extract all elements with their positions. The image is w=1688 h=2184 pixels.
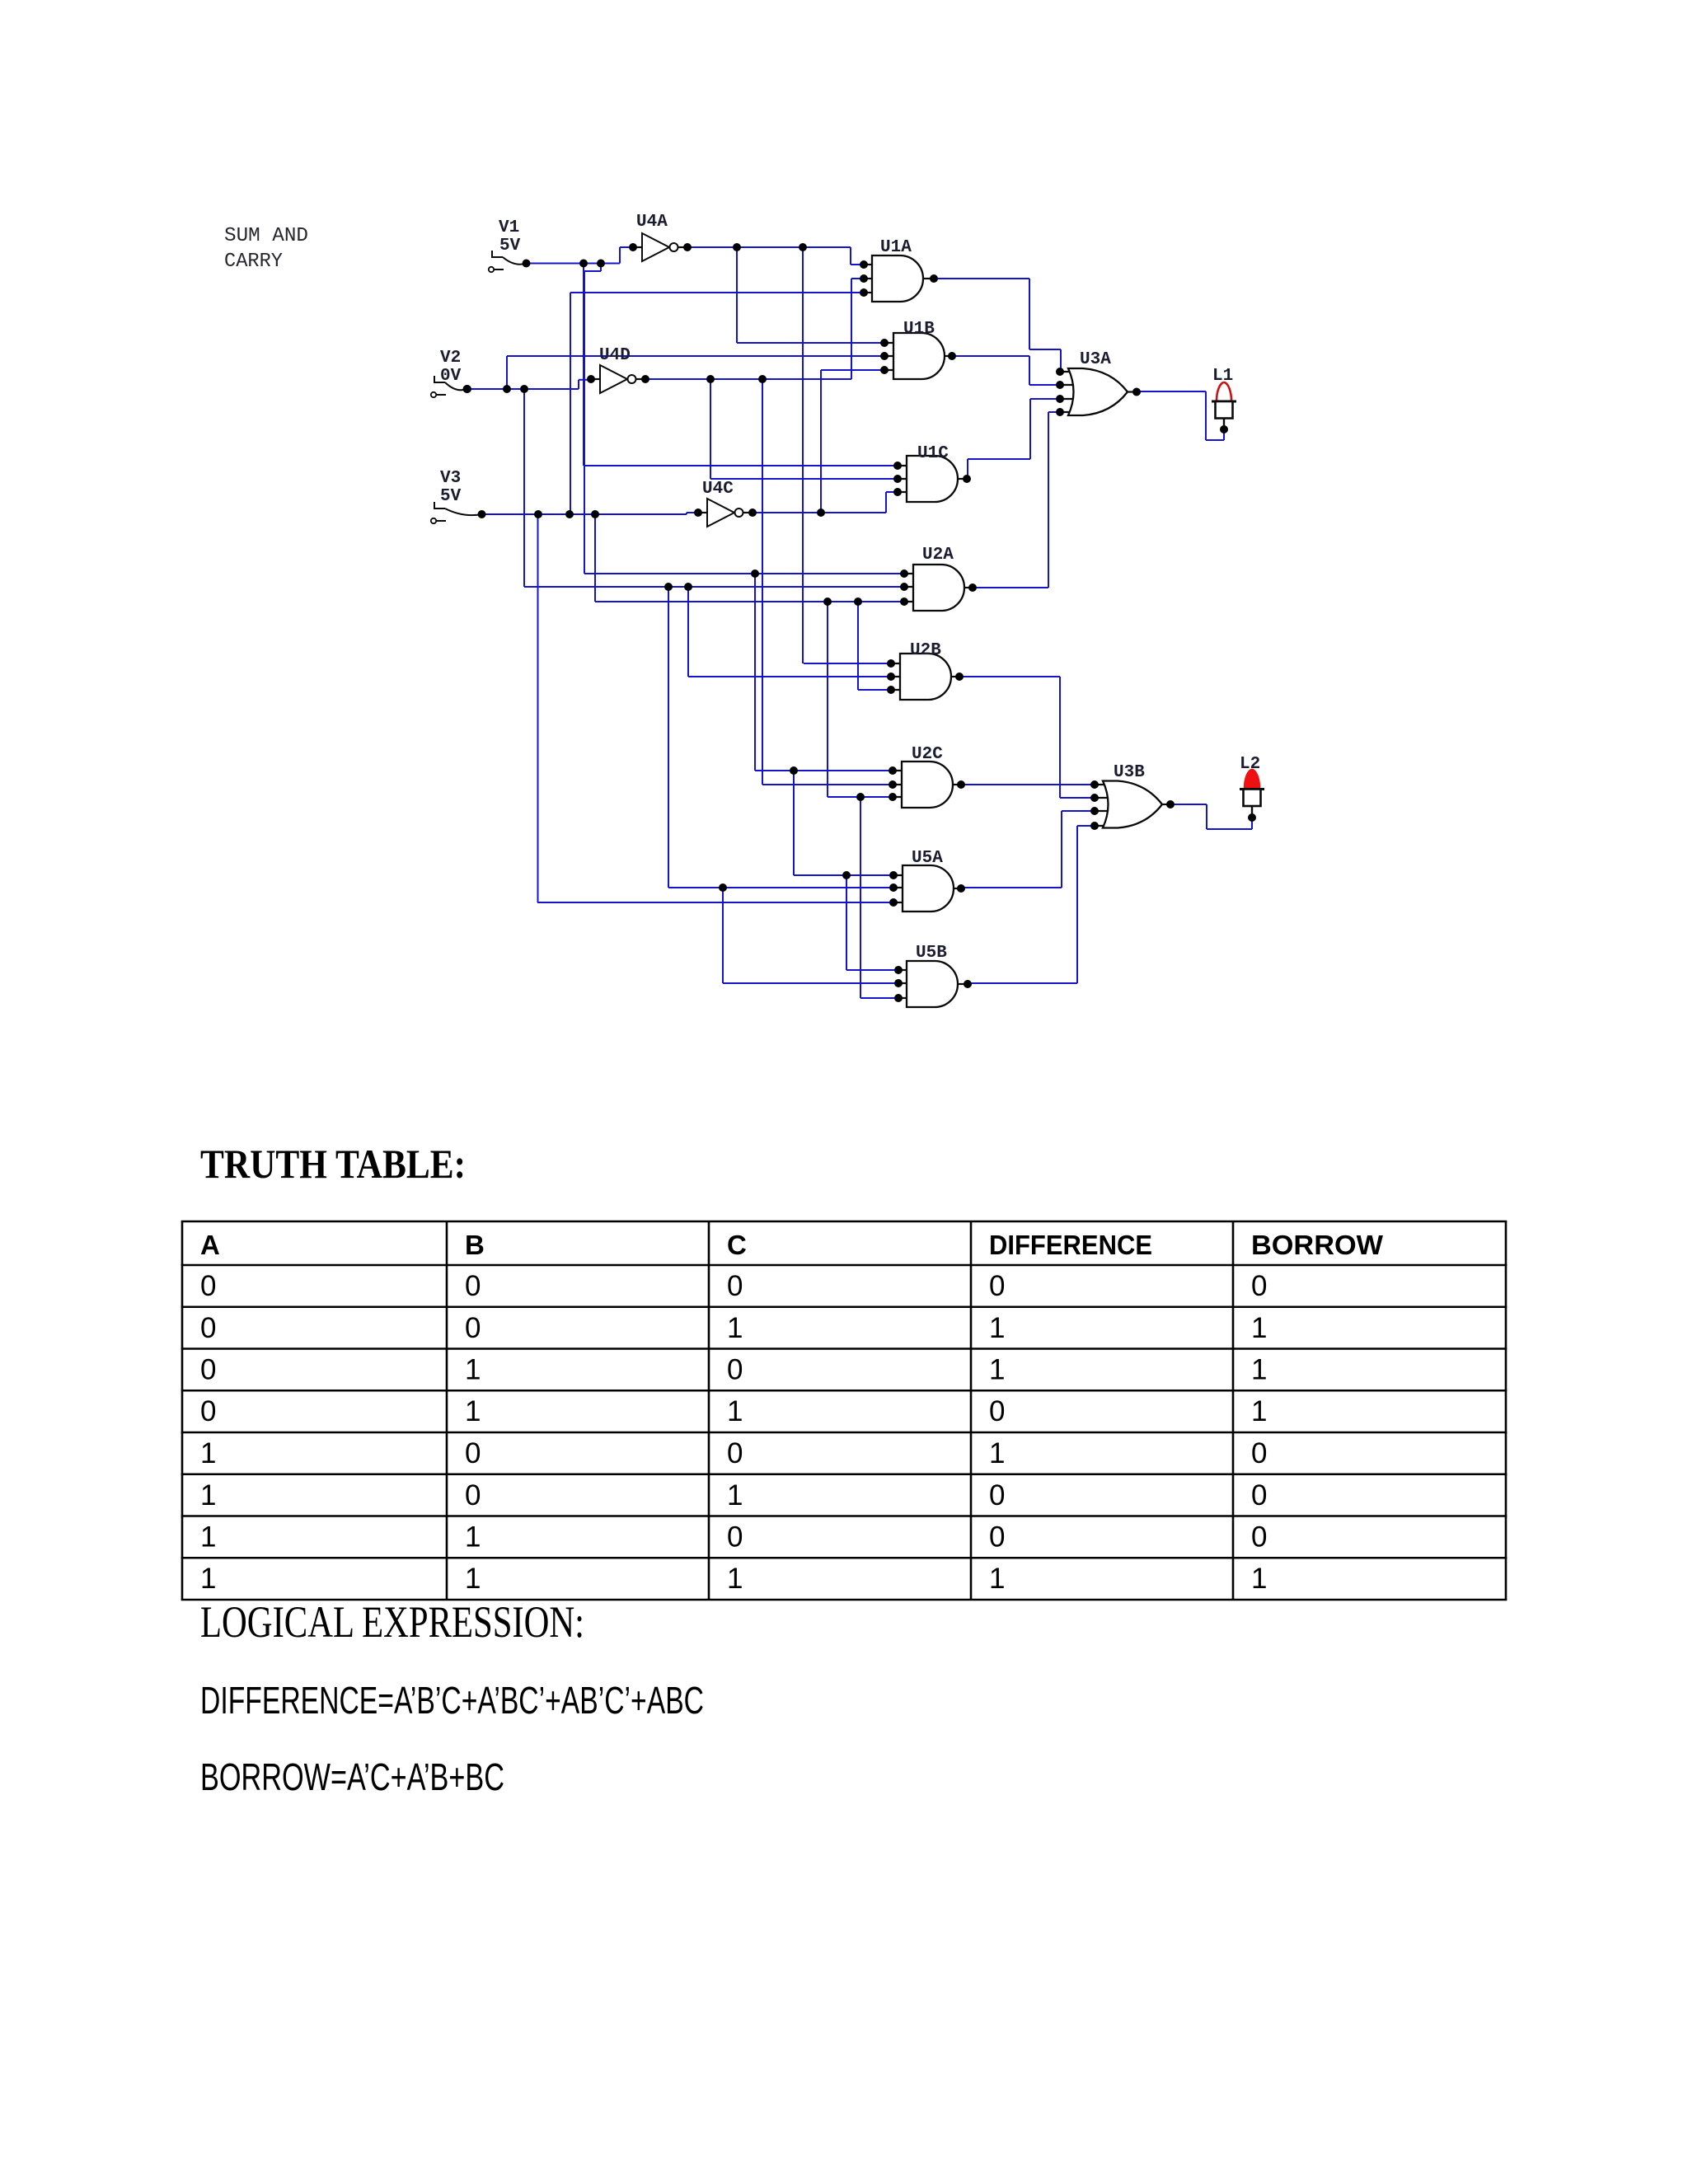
svg-text:1: 1	[465, 1521, 481, 1554]
svg-text:U4D: U4D	[599, 346, 631, 365]
svg-text:CARRY: CARRY	[224, 251, 283, 273]
svg-text:1: 1	[727, 1479, 743, 1511]
svg-text:L1: L1	[1212, 367, 1233, 386]
svg-text:0V: 0V	[440, 367, 462, 386]
svg-text:0: 0	[465, 1270, 481, 1302]
svg-text:V3: V3	[440, 469, 461, 488]
svg-text:U2A: U2A	[922, 546, 954, 565]
svg-text:1: 1	[727, 1312, 743, 1344]
svg-text:1: 1	[200, 1563, 216, 1595]
svg-text:B: B	[465, 1230, 485, 1260]
svg-text:0: 0	[1251, 1521, 1267, 1554]
svg-text:1: 1	[989, 1563, 1005, 1595]
svg-text:TRUTH TABLE:: TRUTH TABLE:	[200, 1141, 466, 1187]
svg-text:1: 1	[200, 1479, 216, 1511]
svg-text:0: 0	[200, 1395, 216, 1427]
svg-text:0: 0	[727, 1270, 743, 1302]
svg-text:1: 1	[727, 1563, 743, 1595]
svg-text:A: A	[200, 1230, 220, 1260]
svg-text:U3B: U3B	[1114, 763, 1145, 782]
svg-text:1: 1	[1251, 1563, 1267, 1595]
svg-text:U5B: U5B	[916, 944, 947, 963]
svg-text:U1B: U1B	[903, 320, 935, 339]
svg-text:1: 1	[200, 1521, 216, 1554]
svg-text:1: 1	[200, 1437, 216, 1469]
svg-text:1: 1	[465, 1354, 481, 1386]
svg-text:U4A: U4A	[636, 213, 668, 232]
svg-text:BORROW=A’C+A’B+BC: BORROW=A’C+A’B+BC	[200, 1755, 504, 1798]
svg-text:1: 1	[465, 1563, 481, 1595]
svg-text:1: 1	[727, 1395, 743, 1427]
svg-text:U1C: U1C	[917, 444, 949, 463]
svg-text:0: 0	[727, 1437, 743, 1469]
svg-text:SUM AND: SUM AND	[224, 225, 308, 247]
svg-text:0: 0	[989, 1395, 1005, 1427]
svg-text:U2B: U2B	[910, 641, 941, 660]
svg-text:U5A: U5A	[912, 849, 943, 868]
svg-text:0: 0	[727, 1521, 743, 1554]
svg-text:V1: V1	[499, 218, 519, 237]
svg-text:1: 1	[1251, 1395, 1267, 1427]
svg-text:5V: 5V	[499, 237, 521, 255]
svg-text:0: 0	[989, 1270, 1005, 1302]
svg-text:0: 0	[200, 1354, 216, 1386]
svg-text:0: 0	[200, 1270, 216, 1302]
svg-text:DIFFERENCE=A’B’C+A’BC’+AB’C’+A: DIFFERENCE=A’B’C+A’BC’+AB’C’+ABC	[200, 1679, 704, 1722]
svg-text:V2: V2	[440, 349, 461, 368]
svg-text:L2: L2	[1240, 755, 1260, 774]
svg-text:U4C: U4C	[702, 480, 734, 499]
svg-text:1: 1	[1251, 1354, 1267, 1386]
svg-text:LOGICAL EXPRESSION:: LOGICAL EXPRESSION:	[200, 1597, 584, 1647]
svg-text:0: 0	[989, 1521, 1005, 1554]
svg-text:1: 1	[989, 1354, 1005, 1386]
svg-text:0: 0	[465, 1479, 481, 1511]
svg-text:0: 0	[727, 1354, 743, 1386]
svg-text:0: 0	[1251, 1270, 1267, 1302]
svg-text:0: 0	[1251, 1437, 1267, 1469]
svg-text:1: 1	[989, 1312, 1005, 1344]
svg-text:U1A: U1A	[880, 238, 912, 257]
svg-text:BORROW: BORROW	[1251, 1230, 1384, 1260]
svg-text:1: 1	[1251, 1312, 1267, 1344]
svg-text:C: C	[727, 1230, 747, 1260]
svg-text:1: 1	[989, 1437, 1005, 1469]
svg-text:1: 1	[465, 1395, 481, 1427]
svg-text:0: 0	[200, 1312, 216, 1344]
svg-text:5V: 5V	[440, 487, 462, 506]
svg-text:DIFFERENCE: DIFFERENCE	[989, 1230, 1152, 1260]
svg-text:U2C: U2C	[912, 745, 943, 764]
svg-text:0: 0	[465, 1437, 481, 1469]
svg-text:U3A: U3A	[1080, 350, 1111, 369]
svg-text:0: 0	[465, 1312, 481, 1344]
svg-text:0: 0	[989, 1479, 1005, 1511]
svg-text:0: 0	[1251, 1479, 1267, 1511]
